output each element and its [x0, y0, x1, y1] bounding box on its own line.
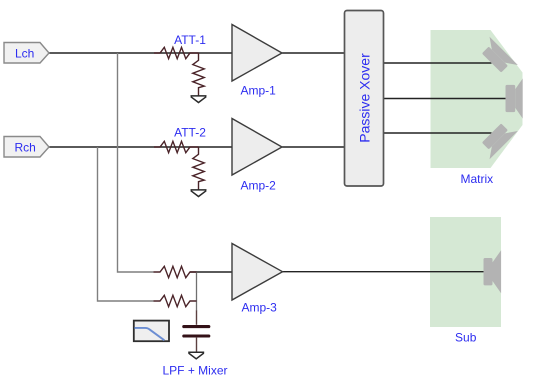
speaker bottom (matrix)	[477, 119, 517, 159]
amp U3 triangle	[232, 244, 283, 301]
svg-text:Rch: Rch	[15, 140, 36, 154]
resistor mixer R2	[154, 295, 197, 306]
resistor ATT-1 horizontal	[154, 47, 199, 58]
ground ATT-2	[191, 190, 207, 197]
svg-text:Passive Xover: Passive Xover	[356, 53, 372, 143]
resistor ATT-1 shunt vertical	[193, 53, 204, 96]
speaker top (matrix)	[477, 37, 517, 77]
wire Lch branch down (node B)	[118, 53, 154, 272]
svg-text:Amp-3: Amp-3	[242, 301, 278, 315]
wire Rch row	[49, 146, 232, 148]
svg-text:Sub: Sub	[455, 331, 477, 345]
wire Amp-3 to Sub	[283, 271, 484, 273]
passive xover box	[345, 11, 384, 187]
LPF icon box	[134, 321, 169, 342]
svg-text:Matrix: Matrix	[460, 172, 493, 186]
speaker mid (matrix)	[506, 79, 523, 119]
svg-text:Lch: Lch	[15, 46, 34, 60]
svg-text:LPF + Mixer: LPF + Mixer	[162, 364, 227, 378]
capacitor C1	[184, 311, 209, 353]
svg-text:ATT-1: ATT-1	[174, 33, 206, 47]
resistor ATT-2 shunt vertical	[193, 147, 204, 190]
ground capacitor	[188, 352, 204, 359]
wire mixer junction vertical	[196, 272, 198, 311]
wire Xover out3	[384, 132, 492, 134]
wire Amp-2 to Xover	[282, 146, 345, 148]
wire mixer row1 to Amp-3	[190, 271, 232, 273]
green matrix panel	[431, 30, 523, 168]
resistor mixer R1	[154, 266, 197, 277]
resistor ATT-2 horizontal	[154, 141, 199, 152]
wire Xover out1	[384, 62, 492, 64]
ground ATT-1	[191, 96, 207, 103]
input label Rch	[4, 137, 49, 158]
speaker sub	[484, 250, 502, 293]
wire Lch row	[49, 52, 232, 54]
amp U2 triangle	[232, 119, 282, 176]
green sub panel	[430, 217, 501, 327]
svg-text:Amp-1: Amp-1	[241, 84, 277, 98]
wire Amp-1 to Xover	[282, 52, 345, 54]
wire Xover out2	[384, 98, 506, 100]
svg-text:ATT-2: ATT-2	[174, 126, 206, 140]
amp U1 triangle	[232, 25, 282, 82]
svg-text:Amp-2: Amp-2	[241, 179, 277, 193]
input label Lch	[4, 43, 49, 64]
wire Rch branch down (node A)	[98, 147, 154, 301]
LPF curve	[134, 328, 164, 340]
